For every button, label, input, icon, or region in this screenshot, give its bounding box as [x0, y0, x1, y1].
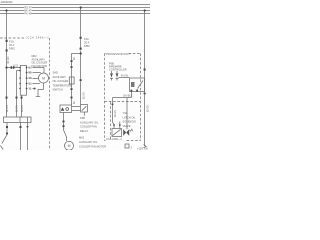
svg-text:20 A: 20 A	[9, 43, 14, 47]
svg-text:62 GN: 62 GN	[6, 105, 9, 112]
svg-text:62 GN: 62 GN	[16, 105, 19, 112]
svg-text:M: M	[42, 76, 45, 80]
svg-text:62 GN: 62 GN	[114, 110, 117, 117]
svg-text:FAN MOTOR: FAN MOTOR	[32, 64, 47, 68]
svg-text:BLU: BLU	[28, 81, 32, 85]
svg-text:SWITCH: SWITCH	[53, 88, 63, 92]
svg-text:AUXILIARY OIL: AUXILIARY OIL	[80, 120, 99, 124]
svg-text:BRN: BRN	[28, 70, 32, 74]
svg-text:LATCH OIL: LATCH OIL	[123, 115, 137, 119]
svg-text:DA: DA	[123, 93, 127, 97]
svg-text:62 GN: 62 GN	[7, 56, 10, 63]
svg-text:AUX OIL CLR: AUX OIL CLR	[1, 0, 13, 4]
svg-text:SOLENOID: SOLENOID	[123, 120, 137, 124]
svg-text:CONTROLLER: CONTROLLER	[109, 67, 127, 71]
svg-text:CCA 2466—1: CCA 2466—1	[106, 137, 122, 141]
svg-text:F/BC: F/BC	[9, 47, 15, 51]
svg-text:COOLER FAN: COOLER FAN	[80, 125, 97, 129]
svg-text:62: 62	[73, 57, 76, 60]
svg-text:YEL: YEL	[28, 86, 32, 90]
svg-text:PK: PK	[24, 11, 28, 15]
svg-text:VALVE: VALVE	[123, 124, 131, 128]
svg-text:TEMPERATURE: TEMPERATURE	[53, 83, 73, 87]
svg-text:BLK: BLK	[128, 93, 133, 97]
svg-text:M: M	[68, 144, 71, 148]
svg-text:K12: K12	[14, 63, 19, 67]
svg-text:62 GN: 62 GN	[82, 92, 85, 99]
svg-text:+12V GN: +12V GN	[137, 147, 148, 151]
svg-text:3HD: 3HD	[53, 71, 58, 75]
svg-text:F1A: F1A	[9, 40, 14, 44]
svg-text:62: 62	[73, 101, 76, 104]
svg-text:COOLER FAN MOTOR: COOLER FAN MOTOR	[79, 144, 106, 148]
svg-text:63 GN: 63 GN	[21, 105, 24, 112]
svg-text:RELAY: RELAY	[80, 129, 89, 133]
svg-text:AUXILIARY OIL: AUXILIARY OIL	[79, 140, 98, 144]
svg-text:GRN: GRN	[28, 76, 32, 80]
svg-text:K6B: K6B	[80, 116, 85, 120]
svg-text:OIL COOLER: OIL COOLER	[53, 79, 69, 83]
svg-text:F/BC: F/BC	[84, 44, 90, 48]
svg-text:M63: M63	[79, 136, 85, 140]
svg-text:AUXILIARY: AUXILIARY	[53, 75, 67, 79]
svg-text:CCA 2466—1: CCA 2466—1	[27, 36, 49, 40]
svg-text:2: 2	[131, 146, 133, 150]
svg-text:20 A: 20 A	[84, 41, 89, 45]
svg-text:F4A: F4A	[84, 37, 89, 41]
svg-text:62 GN: 62 GN	[146, 105, 149, 112]
svg-text:40 GN: 40 GN	[121, 73, 129, 77]
svg-text:PROCESSOR ONLY: PROCESSOR ONLY	[106, 52, 130, 56]
